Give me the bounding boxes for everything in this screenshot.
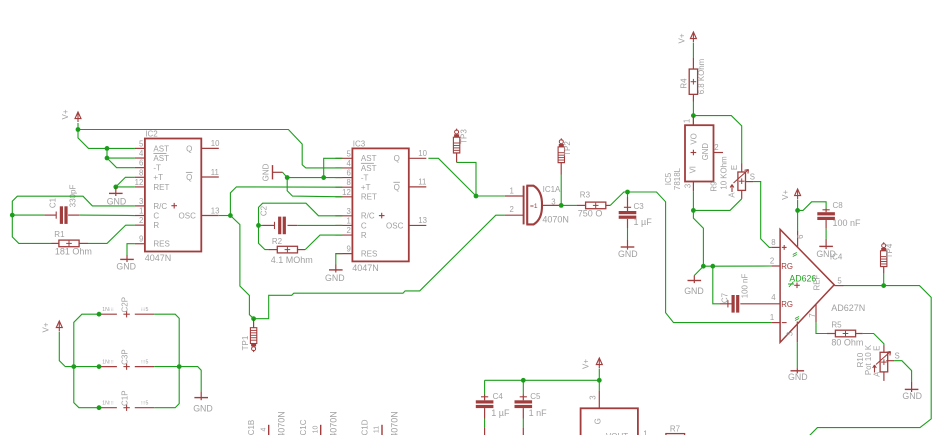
wire IC5 pin3 node	[692, 191, 694, 210]
wire V+ to IC3 pin4 AST	[78, 123, 342, 168]
wire trunk to C2P	[74, 314, 99, 366]
svg-text:C2: C2	[260, 205, 269, 216]
node IC2 pin12 GND	[113, 185, 118, 190]
svg-text:4070N: 4070N	[390, 411, 400, 435]
wire C1 line to IC2 pin1	[12, 214, 44, 216]
node right trunk	[177, 364, 182, 369]
wire IC3 pin6 to pin5	[324, 158, 343, 177]
svg-text:-T: -T	[153, 164, 161, 173]
node AD627 output	[881, 283, 886, 288]
IC4 pin 5 output	[834, 285, 843, 287]
svg-text:6: 6	[346, 169, 350, 178]
wire IC2 pin9 to GND	[127, 244, 135, 255]
wire V+ rail	[485, 369, 600, 381]
svg-text:5: 5	[346, 149, 351, 158]
node C2 left	[256, 223, 261, 228]
ground GND at IC2 pin9	[126, 255, 128, 262]
R9 pin S wiper	[746, 181, 754, 183]
svg-text:11: 11	[211, 168, 219, 177]
IC2 pin 4 AST	[135, 157, 145, 159]
IC2 pin 12 RET	[135, 186, 145, 188]
svg-text:10: 10	[418, 149, 427, 158]
IC2 pin 1 C	[135, 215, 145, 217]
svg-text:V+: V+	[781, 189, 790, 199]
svg-text:3: 3	[786, 332, 795, 336]
trim capacitor C2P	[99, 313, 117, 315]
svg-text:1N⁝⁝⁝: 1N⁝⁝⁝	[102, 307, 114, 313]
trim capacitor C3P	[99, 366, 117, 368]
svg-text:2: 2	[509, 205, 513, 214]
wire V+ to IC2 pin5	[78, 130, 135, 149]
IC4 pin 2 RG	[771, 265, 780, 267]
svg-text:3: 3	[683, 184, 692, 188]
IC3 pin 10 Q	[409, 157, 427, 159]
svg-text:7818L: 7818L	[673, 167, 682, 190]
wire TP2 to output node	[560, 163, 562, 175]
IC3 pin 8 +T	[335, 186, 352, 188]
svg-text:R: R	[361, 231, 367, 240]
svg-text:100 nF: 100 nF	[740, 274, 749, 299]
wire V+ to R4	[692, 43, 694, 58]
svg-text:R9: R9	[709, 181, 718, 192]
svg-text:S: S	[895, 352, 900, 361]
svg-text:1: 1	[346, 216, 350, 225]
node C2P left	[97, 312, 102, 317]
svg-text:⁝⁝⁝5: ⁝⁝⁝5	[141, 401, 149, 407]
gate C1B 4070N partial	[268, 425, 270, 435]
svg-text:GND: GND	[193, 404, 213, 414]
wire IC5 pin3 to R9 pin A	[693, 199, 741, 211]
svg-text:⁝⁝⁝5: ⁝⁝⁝5	[141, 359, 149, 365]
svg-text:4: 4	[139, 149, 144, 158]
svg-text:GND: GND	[116, 261, 136, 271]
wire IC3 pin9 to GND	[336, 254, 343, 265]
svg-text:C: C	[361, 221, 367, 230]
IC3 pin 2 R	[335, 234, 352, 236]
supply V+ P3 bottom-left	[56, 321, 62, 328]
svg-text:R5: R5	[831, 320, 842, 329]
svg-text:4047N: 4047N	[145, 253, 172, 263]
svg-text:3: 3	[551, 198, 555, 207]
test point TP4	[883, 242, 885, 244]
ground GND at C8	[825, 239, 827, 249]
svg-text:E: E	[872, 346, 881, 351]
IC2 pin 11 Q	[201, 176, 219, 178]
svg-text:C3: C3	[634, 202, 645, 211]
potentiometer R10 Pot 10 K	[883, 345, 885, 352]
svg-text:VO: VO	[689, 133, 698, 144]
R10 pin S wiper	[886, 360, 894, 362]
IC3 pin 1 C	[335, 224, 352, 226]
svg-text:6.8 KOhm: 6.8 KOhm	[697, 58, 706, 94]
IC4 pin 1	[771, 322, 780, 324]
resistor R5 80 Ohm	[827, 333, 836, 335]
svg-text:13: 13	[418, 216, 427, 225]
wire C2P right down	[154, 314, 179, 366]
node V+ junction	[76, 127, 81, 132]
svg-text:GND: GND	[701, 143, 710, 161]
svg-text:GND: GND	[261, 163, 270, 181]
capacitor C1 330pF	[44, 214, 56, 216]
svg-text:100 nF: 100 nF	[833, 218, 862, 228]
svg-text:TP4: TP4	[885, 243, 894, 258]
supply V+ P1 top-left	[75, 112, 81, 119]
svg-text:9: 9	[139, 235, 143, 244]
node V+ rail C5	[521, 378, 526, 383]
svg-text:AD627N: AD627N	[831, 303, 865, 313]
node below IC5 right	[710, 264, 715, 269]
node IC2 pin5	[105, 146, 110, 151]
svg-text:R/C: R/C	[153, 202, 167, 211]
node IC1A output	[559, 203, 564, 208]
capacitor C5 1nF	[522, 380, 524, 394]
IC2 pin 13 OSC	[201, 215, 219, 217]
IC2 pin 3 R/C	[135, 205, 145, 207]
node below IC5 left	[701, 264, 706, 269]
svg-text:IC1A: IC1A	[543, 185, 561, 194]
svg-text:4: 4	[260, 427, 267, 431]
IC3 pin 6 -T	[335, 177, 352, 179]
svg-text:1 µF: 1 µF	[491, 408, 510, 418]
wire C2 to IC3 pin3 loop	[259, 203, 343, 225]
capacitor C7 100 nF	[720, 303, 732, 305]
svg-text:80 Ohm: 80 Ohm	[831, 337, 863, 347]
svg-text:GND: GND	[684, 286, 704, 296]
wire IC2 pin4 to pin6	[107, 158, 135, 168]
wire C1P right up	[154, 367, 179, 408]
svg-text:4070N: 4070N	[276, 411, 286, 435]
svg-text:VI: VI	[688, 166, 697, 173]
svg-text:RET: RET	[361, 193, 377, 202]
wire IC2 pin5 to pin4	[107, 148, 135, 158]
wire IC2 pin13 to IC3 pin8	[230, 187, 342, 216]
svg-text:C1D: C1D	[360, 419, 369, 435]
svg-text:Q: Q	[394, 154, 400, 163]
svg-text:AST: AST	[153, 154, 169, 163]
wire IC2 pin13 OSC	[219, 215, 230, 217]
svg-text:1: 1	[682, 119, 691, 123]
wire IC5 pin3 down	[693, 210, 703, 266]
svg-text:10: 10	[312, 426, 319, 434]
ground GND at AD627 pin3	[796, 342, 798, 368]
svg-text:1: 1	[770, 313, 774, 322]
wire output loop right and bottom	[809, 286, 932, 435]
wire node down to C7	[713, 266, 720, 304]
svg-text:=1: =1	[530, 203, 538, 210]
wire TP1 to IC1A pin2	[254, 215, 505, 319]
resistor R3 750 O	[561, 204, 576, 206]
node C1P left	[97, 405, 102, 410]
wire V+ node to C8	[798, 202, 827, 211]
node TP1	[251, 316, 256, 321]
svg-text:Q: Q	[186, 173, 192, 182]
wire R9 S to AD627 pin8	[753, 182, 771, 248]
node trunk C3P	[71, 364, 76, 369]
svg-text:TP2: TP2	[563, 141, 572, 156]
svg-text:REF: REF	[812, 275, 821, 291]
svg-text:10: 10	[211, 139, 220, 148]
svg-text:RES: RES	[153, 240, 169, 249]
node IC2 pin13	[228, 213, 233, 218]
node IC5 pin3	[691, 208, 696, 213]
gate C1C 4070N partial	[320, 425, 322, 435]
wire AD627 output	[844, 285, 884, 287]
IC2 pin 6 -T	[135, 167, 145, 169]
resistor R1 181 Ohm	[52, 242, 59, 244]
svg-text:⁝⁝⁝5: ⁝⁝⁝5	[141, 307, 149, 313]
IC1A pin 2	[505, 214, 524, 216]
ground GND at IC2 pins 8/12	[115, 187, 117, 196]
IC1A pin 1	[505, 195, 524, 197]
svg-text:3: 3	[346, 207, 350, 216]
svg-text:GND: GND	[325, 273, 345, 283]
svg-text:C4: C4	[493, 392, 504, 401]
node C3P left	[97, 364, 102, 369]
wire to GND below IC5	[694, 266, 703, 275]
IC3 pin 11 Q	[409, 186, 427, 188]
wire V+ to trunk	[59, 332, 74, 367]
supply V+ P5 at AD627	[795, 189, 801, 196]
svg-text:R3: R3	[580, 191, 591, 200]
svg-text:-T: -T	[361, 173, 369, 182]
wire C3 node to AD627 pin1	[628, 192, 772, 323]
svg-text:R/C: R/C	[361, 212, 375, 221]
svg-text:1: 1	[509, 186, 513, 195]
wire IC2 pin12 to pin8	[116, 177, 135, 187]
svg-text:GND: GND	[788, 372, 808, 382]
node IC2 pin4	[105, 156, 110, 161]
svg-text:R7: R7	[670, 425, 681, 434]
wire node to AD627 pin2	[703, 265, 771, 267]
svg-text:IC3: IC3	[353, 139, 366, 148]
svg-text:12: 12	[342, 188, 351, 197]
svg-text:Pot 10 K: Pot 10 K	[864, 344, 873, 375]
ground GND below IC5	[693, 276, 695, 284]
svg-text:C8: C8	[833, 201, 844, 210]
svg-text:GND: GND	[618, 249, 638, 259]
IC3 pin 4 AST	[335, 167, 352, 169]
svg-text:9: 9	[346, 245, 350, 254]
wire R1 loop to IC2 pin2	[12, 215, 51, 243]
svg-text:RET: RET	[153, 183, 169, 192]
wire IC3 pin6 to pin12	[287, 178, 342, 197]
wire R3 to C3 node	[610, 192, 627, 205]
IC2 pin 5 AST	[135, 147, 145, 149]
node IC1A pin1	[474, 194, 479, 199]
resistor R4 6.8 KOhm	[692, 58, 694, 70]
node V+ rail IC6	[597, 378, 602, 383]
svg-text:C5: C5	[530, 392, 541, 401]
IC5 pin 1 top	[692, 116, 694, 126]
IC4 pin 8	[771, 246, 780, 248]
resistor R2 4.1 MOhm	[277, 246, 297, 253]
IC2 pin 2 R	[135, 224, 145, 226]
svg-text:4.1 MOhm: 4.1 MOhm	[271, 255, 313, 265]
capacitor C8 100 nF	[825, 209, 827, 213]
svg-text:IC5: IC5	[664, 172, 673, 185]
svg-text:V+: V+	[61, 109, 70, 119]
svg-text:1N⁝⁝⁝: 1N⁝⁝⁝	[102, 401, 114, 407]
svg-text:2: 2	[714, 143, 718, 152]
svg-text:8: 8	[346, 178, 350, 187]
svg-text:+T: +T	[153, 173, 163, 182]
wire TP3 to IC1A pin1 node	[456, 153, 458, 163]
op-amp IC4 AD627N triangle	[780, 229, 834, 342]
wire TP4 to output node	[883, 266, 885, 273]
node V+ AD627	[795, 208, 800, 213]
svg-text:8: 8	[139, 168, 143, 177]
svg-text:1 µF: 1 µF	[634, 217, 653, 227]
test point TP3	[456, 129, 458, 131]
svg-text:1: 1	[139, 207, 143, 216]
IC2 pin 8 +T	[135, 176, 145, 178]
capacitor C2	[263, 224, 275, 226]
wire V+ to pin6 and C8	[797, 200, 799, 232]
wire IC2 pin12 to GND	[116, 186, 135, 188]
svg-text:11: 11	[374, 426, 381, 433]
svg-text:3: 3	[139, 197, 143, 206]
svg-text:Q: Q	[394, 183, 400, 192]
node IC5 pin1	[691, 113, 696, 118]
svg-text:C2P: C2P	[120, 297, 129, 313]
svg-text:C7: C7	[721, 292, 730, 303]
svg-text:A: A	[873, 371, 882, 377]
svg-text:750 O: 750 O	[578, 209, 603, 219]
svg-text:RG: RG	[781, 262, 793, 271]
svg-text:R4: R4	[679, 78, 688, 89]
svg-text:R2: R2	[272, 237, 283, 246]
svg-text:6: 6	[796, 235, 805, 239]
svg-text:R1: R1	[54, 230, 65, 239]
svg-text:11: 11	[418, 178, 426, 187]
IC3 pin 13 OSC	[409, 224, 427, 226]
svg-text:GND: GND	[902, 391, 922, 401]
IC4 pin 6 top	[797, 231, 799, 247]
wire IC2 pin13 down to TP1 node	[230, 216, 253, 319]
IC IC6 regulator box	[581, 408, 638, 435]
node IC3 pin6 right	[321, 175, 326, 180]
test point TP2	[560, 138, 562, 140]
IC3 pin 9 RES	[335, 253, 352, 255]
svg-text:4070N: 4070N	[328, 411, 338, 435]
gate C1D 4070N partial	[381, 425, 383, 435]
wire IC3 pin10 Q to IC1A pin1	[428, 158, 505, 196]
svg-text:3: 3	[589, 395, 598, 399]
IC2 pin 10 Q	[201, 147, 219, 149]
svg-text:4070N: 4070N	[542, 214, 569, 224]
IC3 pin 12 RET	[335, 196, 352, 198]
svg-text:C1P: C1P	[120, 390, 129, 406]
svg-text:V+: V+	[42, 322, 51, 332]
IC4 pin 7	[815, 304, 817, 322]
svg-text:RG: RG	[781, 300, 793, 309]
IC5 pin 3 bottom	[692, 182, 694, 192]
svg-text:1 nF: 1 nF	[529, 408, 548, 418]
ground GND at trimcap block	[200, 392, 202, 401]
svg-text:13: 13	[211, 206, 220, 215]
wire R2 loop to IC3 pin2	[259, 225, 269, 249]
IC2 pin 9 RES	[135, 243, 145, 245]
svg-text:4: 4	[346, 159, 351, 168]
svg-text:10 KOhm: 10 KOhm	[720, 156, 729, 190]
IC4 pin 3 bottom	[796, 322, 798, 343]
svg-text:1N⁝⁝⁝: 1N⁝⁝⁝	[102, 359, 114, 365]
svg-text:G: G	[594, 418, 603, 424]
svg-text:V+: V+	[581, 359, 590, 369]
test point TP1	[250, 328, 256, 344]
svg-text:5: 5	[837, 276, 842, 285]
capacitor C3 1uF	[627, 192, 629, 197]
ground GND at IC3 pin9	[335, 265, 337, 273]
svg-text:4: 4	[771, 293, 776, 302]
svg-text:C: C	[153, 211, 159, 220]
svg-text:C1: C1	[48, 197, 57, 208]
svg-text:S: S	[750, 172, 755, 181]
IC IC5 7818L box	[685, 125, 714, 181]
wire AD627 pin7 to R5	[816, 322, 827, 333]
wire C2 line to IC3 pin1	[259, 224, 263, 226]
wire R4 to IC5 pin1	[692, 102, 694, 126]
svg-text:IC2: IC2	[145, 130, 158, 139]
svg-text:E: E	[730, 165, 739, 170]
ground GND at C3	[627, 240, 629, 250]
svg-text:12: 12	[135, 178, 144, 187]
IC3 pin 3 R/C	[335, 215, 352, 217]
svg-text:RES: RES	[361, 250, 377, 259]
trim capacitor C1P	[99, 407, 117, 409]
svg-text:2: 2	[770, 256, 774, 265]
IC2 red origin cross	[171, 205, 177, 207]
node C3 top	[625, 190, 630, 195]
wire C3P to node	[154, 366, 179, 368]
svg-text:R: R	[153, 221, 159, 230]
ground GND rotated at IC3 pins	[272, 165, 274, 179]
svg-text:AST: AST	[153, 144, 169, 153]
svg-text:+T: +T	[361, 183, 371, 192]
svg-text:OSC: OSC	[179, 211, 197, 220]
IC5 pin 2 right	[714, 152, 724, 154]
IC6 pin 3 top	[598, 380, 600, 390]
svg-text:C3P: C3P	[120, 349, 129, 365]
svg-text:A: A	[728, 192, 737, 198]
svg-text:5: 5	[139, 139, 144, 148]
node C1 left	[10, 213, 15, 218]
IC IC3 4047N box	[352, 148, 408, 261]
IC IC2 4047N box	[145, 139, 201, 252]
svg-text:8: 8	[771, 238, 775, 247]
IC1A pin 3 output	[542, 204, 561, 206]
ground GND at R10	[911, 382, 913, 392]
svg-text:4047N: 4047N	[352, 263, 379, 273]
IC4 green marks	[793, 253, 797, 257]
svg-text:GND: GND	[107, 197, 127, 207]
wire node to GND	[179, 367, 201, 392]
svg-text:TP1: TP1	[241, 335, 250, 350]
svg-text:AST: AST	[361, 164, 377, 173]
wire IC5 pin1 to R9 pin E	[693, 116, 741, 164]
svg-text:2: 2	[346, 226, 350, 235]
wire trunk to C3P	[74, 366, 99, 368]
svg-text:V+: V+	[677, 33, 686, 43]
svg-text:GND: GND	[816, 249, 836, 259]
IC3 red origin cross	[379, 215, 385, 217]
node IC3 pin6 left	[285, 175, 290, 180]
wire R10 S to GND	[894, 361, 911, 382]
wire C1 to IC2 pin3 loop	[12, 196, 135, 215]
svg-text:2: 2	[139, 216, 143, 225]
supply V+ P4 bottom middle	[596, 358, 602, 365]
supply V+ P2 at R4	[690, 32, 696, 39]
